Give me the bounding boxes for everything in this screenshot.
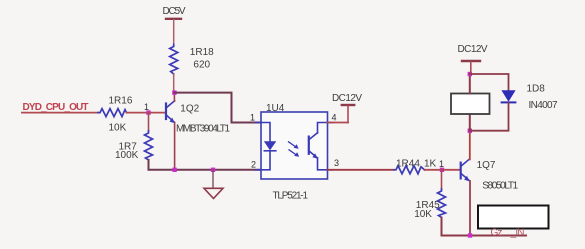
svg-text:1R16: 1R16	[109, 95, 133, 106]
transistor Q2 MMBT3904LT1	[166, 101, 175, 123]
svg-text:10K: 10K	[109, 123, 127, 134]
wire (pin 3 to R44)	[328, 169, 395, 171]
svg-text:3: 3	[334, 158, 339, 168]
resistor R16	[98, 109, 127, 117]
wire (Q7 emitter down)	[469, 181, 471, 236]
ground	[204, 168, 223, 199]
wire (base of Q2)	[149, 112, 166, 114]
junction (DC12V node)	[468, 72, 472, 76]
resistor R44	[394, 166, 425, 174]
wire (R7 bottom to ground rail)	[149, 160, 262, 170]
junction (below relay)	[468, 129, 472, 133]
U4 internal LED	[261, 123, 276, 170]
svg-text:TLP521-1: TLP521-1	[273, 190, 309, 201]
svg-text:1Q7: 1Q7	[477, 160, 496, 171]
U4 internal phototransistor	[309, 123, 328, 170]
svg-text:1: 1	[439, 159, 444, 169]
svg-text:1D8: 1D8	[527, 84, 546, 95]
svg-text:1R18: 1R18	[190, 47, 214, 58]
svg-text:620: 620	[193, 60, 210, 71]
junction (collector node)	[172, 90, 176, 94]
wire (R18 bottom to collector node)	[173, 74, 175, 93]
resistor R45	[441, 170, 443, 189]
svg-text:1R44: 1R44	[396, 159, 420, 170]
resistor R18	[170, 45, 178, 75]
wire (Q7 collector up)	[469, 131, 471, 160]
resistor R7	[145, 131, 153, 160]
svg-text:DC12V: DC12V	[458, 44, 488, 55]
wire	[127, 112, 149, 114]
wire (down to R7)	[148, 113, 150, 131]
wire (Q2 emitter down)	[174, 123, 176, 170]
white redaction box	[478, 206, 549, 229]
svg-text:2: 2	[251, 160, 256, 170]
relay coil	[469, 114, 471, 131]
wire (R45 bottom to rail)	[442, 218, 527, 236]
svg-text:100K: 100K	[115, 150, 139, 161]
transistor Q7 S8050LT1	[461, 159, 470, 181]
svg-text:DC5V: DC5V	[163, 6, 186, 17]
svg-text:1U4: 1U4	[266, 103, 285, 114]
diode D8 IN4007	[470, 74, 509, 90]
wire	[22, 112, 98, 114]
wire (Q2 collector up)	[173, 93, 175, 102]
svg-text:1K: 1K	[424, 159, 437, 170]
svg-text:Gz…_IN: Gz…_IN	[491, 228, 525, 239]
svg-text:IN4007: IN4007	[529, 100, 558, 111]
svg-text:DC12V: DC12V	[332, 93, 362, 104]
junction (emitter / rail)	[172, 168, 176, 172]
optocoupler U4 TLP521-1	[261, 112, 328, 179]
wire (collector node to U4 pin 1)	[174, 93, 261, 123]
svg-text:1Q2: 1Q2	[180, 104, 199, 115]
junction (emitter rail)	[468, 233, 472, 237]
U4 light arrows	[289, 142, 300, 157]
wire (to Q7 base)	[442, 169, 460, 171]
wire (DC12V to pin 4)	[328, 122, 349, 124]
svg-text:1: 1	[250, 112, 255, 122]
svg-text:MMBT3904LT1: MMBT3904LT1	[176, 123, 230, 134]
svg-text:4: 4	[332, 112, 337, 122]
svg-text:10K: 10K	[414, 209, 432, 220]
svg-text:DYD_CPU_OUT: DYD_CPU_OUT	[23, 102, 89, 113]
wire	[425, 169, 443, 171]
svg-text:S8050LT1: S8050LT1	[482, 180, 518, 191]
